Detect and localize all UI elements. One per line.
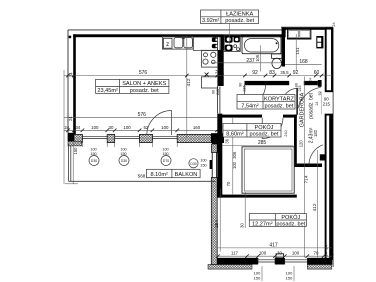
svg-text:12,27m²: 12,27m² bbox=[252, 221, 273, 227]
wall: right wall lower outer emphasis bbox=[329, 115, 332, 265]
svg-text:150: 150 bbox=[200, 164, 206, 168]
wall: door post at entry bbox=[318, 80, 322, 87]
label box POKOJ 12,27 bbox=[249, 214, 306, 227]
svg-text:117: 117 bbox=[231, 251, 239, 256]
svg-text:3.92m²: 3.92m² bbox=[202, 18, 220, 24]
svg-text:24: 24 bbox=[324, 252, 328, 256]
wire: outer thin face line right bbox=[332, 27, 334, 267]
fridge bbox=[201, 77, 217, 88]
svg-text:BALKON: BALKON bbox=[175, 172, 198, 178]
dim line 576/interior horizontal y75.5 bbox=[64, 75, 332, 77]
extension line across entry opening bbox=[321, 92, 323, 115]
svg-text:SALON + ANEKS: SALON + ANEKS bbox=[122, 81, 166, 87]
dim line 417 bottom bbox=[218, 247, 332, 249]
svg-text:412: 412 bbox=[312, 203, 318, 211]
svg-text:215: 215 bbox=[323, 102, 331, 107]
wall: hatched west wall of lower room bbox=[212, 144, 218, 153]
svg-text:posadz. bet: posadz. bet bbox=[225, 18, 254, 24]
wire: outer thin face line left bbox=[67, 30, 69, 141]
dim line detail bottom bbox=[218, 255, 332, 257]
bathroom washbasin/washer unit bbox=[224, 35, 240, 52]
svg-text:100: 100 bbox=[91, 125, 99, 130]
wall: right wall lower segment (hollow double line) bbox=[326, 115, 332, 259]
svg-text:160: 160 bbox=[193, 125, 201, 130]
window: salon south window 2 bbox=[115, 135, 140, 141]
svg-text:8,60m²: 8,60m² bbox=[226, 132, 244, 138]
svg-text:150: 150 bbox=[73, 147, 78, 155]
wire: outer thin face line top right bbox=[281, 26, 333, 28]
dim line 285 middle room bbox=[222, 145, 293, 147]
svg-text:150: 150 bbox=[254, 276, 261, 281]
kitchen counter with sink bbox=[162, 36, 193, 49]
svg-text:posadz. bet: posadz. bet bbox=[250, 132, 279, 138]
svg-text:100: 100 bbox=[162, 148, 168, 152]
svg-text:70: 70 bbox=[314, 251, 319, 256]
short leader lines from salon windows bbox=[82, 143, 177, 147]
svg-text:70: 70 bbox=[226, 181, 231, 186]
garderoba vertical room texts bbox=[300, 92, 315, 143]
svg-text:100: 100 bbox=[292, 251, 300, 256]
svg-text:D30: D30 bbox=[91, 159, 97, 163]
svg-text:posadz. bet: posadz. bet bbox=[276, 221, 305, 227]
svg-text:150: 150 bbox=[162, 152, 168, 156]
svg-text:90: 90 bbox=[212, 90, 216, 94]
svg-text:237: 237 bbox=[246, 58, 255, 64]
dim line 576 salon south bbox=[64, 117, 217, 119]
svg-text:35,5: 35,5 bbox=[280, 70, 289, 75]
balcony slab left edge bbox=[69, 144, 216, 182]
svg-text:24: 24 bbox=[68, 116, 73, 121]
svg-text:60: 60 bbox=[314, 70, 320, 76]
corner dot top-left bbox=[69, 36, 72, 39]
svg-text:210: 210 bbox=[284, 130, 288, 136]
svg-text:100: 100 bbox=[123, 125, 131, 130]
wall: jog between top bands bbox=[282, 28, 286, 38]
svg-text:106: 106 bbox=[255, 54, 260, 62]
wall: korytarz south segment west bbox=[218, 115, 263, 118]
bottom wall segment dims bbox=[231, 251, 319, 256]
svg-text:GARDEROBA: GARDEROBA bbox=[300, 92, 306, 127]
svg-text:100: 100 bbox=[90, 148, 96, 152]
toilet bbox=[272, 54, 282, 69]
svg-text:100: 100 bbox=[232, 161, 237, 169]
svg-text:23,45m²: 23,45m² bbox=[97, 88, 118, 94]
svg-text:8.10m²: 8.10m² bbox=[150, 172, 168, 178]
wall: between pokoj rooms bbox=[218, 195, 297, 198]
dim line vertical balcony 150 bbox=[72, 142, 74, 184]
dim line detail salon south bbox=[64, 129, 217, 131]
wall: hatched pier 1 salon south bbox=[74, 134, 82, 142]
svg-text:83: 83 bbox=[269, 70, 275, 76]
svg-text:24: 24 bbox=[68, 72, 73, 77]
wall: middle wall upper with channel bbox=[221, 36, 224, 50]
wall: salon top band bbox=[73, 34, 282, 37]
label box KORYTARZ bbox=[237, 95, 295, 110]
small black block on balcony strip bbox=[210, 160, 213, 169]
svg-text:306: 306 bbox=[232, 151, 237, 159]
wall: bottom wall right black segment bbox=[307, 258, 330, 265]
window: bottom wall window 1 bbox=[258, 258, 275, 264]
svg-text:412: 412 bbox=[186, 78, 192, 86]
svg-text:151: 151 bbox=[295, 47, 300, 55]
label box SALON bbox=[96, 79, 169, 93]
leader window label bottom 1 bbox=[261, 266, 263, 281]
stove bbox=[201, 50, 217, 67]
leader lazienka box bbox=[229, 24, 231, 45]
window: salon south window 1 bbox=[82, 135, 107, 141]
svg-text:576: 576 bbox=[138, 112, 147, 118]
svg-text:150: 150 bbox=[90, 152, 96, 156]
svg-text:417: 417 bbox=[269, 243, 278, 249]
kitchen tall unit outline bbox=[193, 37, 217, 51]
svg-text:D30: D30 bbox=[190, 162, 196, 166]
dim line vertical 412 right bbox=[316, 150, 318, 258]
svg-text:z: z bbox=[166, 42, 169, 48]
balcony window marker circles D30 bbox=[89, 156, 198, 168]
salon south segment dims bbox=[64, 125, 200, 130]
svg-text:30: 30 bbox=[239, 223, 244, 228]
door: garderoba door arc bbox=[282, 89, 297, 104]
svg-text:ŁAZIENKA: ŁAZIENKA bbox=[226, 12, 253, 18]
window sill stacked labels balcony bbox=[90, 148, 206, 168]
wall: salon bottom-right corner block bbox=[211, 133, 224, 143]
svg-text:24: 24 bbox=[315, 102, 319, 106]
door: balcony door leaf and swing arc bbox=[147, 111, 172, 136]
door jamb lines in salon-korytarz opening bbox=[218, 87, 220, 114]
dim line vertical 106 bbox=[259, 45, 261, 71]
wall: door post lower room bbox=[320, 154, 326, 160]
svg-text:150: 150 bbox=[286, 276, 293, 281]
svg-text:24: 24 bbox=[64, 125, 69, 130]
door: lower room door arc and leaf bbox=[309, 145, 323, 166]
door: bathroom door leaf and arc bbox=[245, 85, 266, 106]
dim line balcony bottom tick bbox=[65, 183, 78, 185]
wall: bathroom east wall bbox=[282, 34, 285, 66]
svg-text:KORYTARZ: KORYTARZ bbox=[264, 96, 295, 102]
svg-text:168: 168 bbox=[299, 59, 308, 65]
asterisk tick on 576 line bbox=[205, 73, 209, 77]
svg-text:215: 215 bbox=[216, 89, 220, 95]
svg-text:182: 182 bbox=[313, 129, 318, 137]
svg-text:120: 120 bbox=[298, 140, 303, 148]
wire: outer thin face line top bbox=[68, 29, 286, 31]
wall: bridge at top of lower-room west wall bbox=[212, 143, 222, 152]
svg-text:D70: D70 bbox=[163, 159, 169, 163]
dim line vertical 412 salon bbox=[186, 37, 188, 139]
window: balcony door glazing bbox=[152, 135, 177, 141]
svg-text:24: 24 bbox=[324, 245, 328, 249]
svg-text:92: 92 bbox=[293, 70, 299, 76]
rotated dimension texts bbox=[68, 47, 328, 257]
wall: korytarz south segment east bbox=[283, 115, 297, 118]
ticks bottom detail line bbox=[216, 254, 220, 258]
svg-text:24: 24 bbox=[308, 78, 312, 82]
dim line vertical 30 lower room bbox=[244, 192, 246, 228]
svg-text:285: 285 bbox=[258, 140, 267, 146]
ticks salon south detail line bbox=[66, 129, 70, 133]
svg-text:30: 30 bbox=[277, 251, 282, 256]
bathtub bbox=[242, 37, 281, 54]
wall: bathroom south segment a bbox=[245, 81, 290, 85]
svg-text:POKÓJ: POKÓJ bbox=[281, 214, 300, 221]
wall: salon bottom-left corner block bbox=[68, 133, 74, 142]
svg-text:150: 150 bbox=[120, 152, 126, 156]
svg-text:24: 24 bbox=[214, 69, 219, 74]
wall: right wall upper segment (hollow double line) bbox=[326, 29, 332, 92]
wall: hatched pier 3 salon south bbox=[140, 134, 153, 142]
door: entry door arc bbox=[298, 87, 321, 108]
window spec stacked labels bottom bbox=[254, 271, 293, 281]
bed rectangle in middle room bbox=[242, 147, 294, 193]
dim line vertical 151 niche bbox=[295, 34, 297, 71]
dim line vertical 714 bbox=[304, 77, 306, 258]
wall: hatch band bottom right bbox=[307, 265, 332, 270]
svg-text:34: 34 bbox=[75, 125, 80, 130]
pilaster above bottom middle pier bbox=[276, 254, 284, 258]
wire: balcony-side double line wall section bbox=[211, 153, 213, 178]
wall: hatched pier 2 salon south bbox=[107, 134, 115, 142]
svg-text:24: 24 bbox=[332, 22, 336, 26]
entry door spec 90/215 bbox=[323, 97, 331, 107]
wall: garderoba west wall upper thin bbox=[296, 88, 297, 115]
svg-text:100: 100 bbox=[161, 125, 169, 130]
wall: garderoba south wall bbox=[294, 164, 322, 168]
svg-text:posadz. bet: posadz. bet bbox=[308, 92, 314, 118]
svg-text:52: 52 bbox=[143, 125, 148, 130]
wall: top-right upper band bbox=[282, 28, 333, 30]
dim line 168 niche bbox=[285, 63, 322, 65]
svg-text:576: 576 bbox=[139, 70, 148, 76]
svg-text:100: 100 bbox=[259, 251, 267, 256]
svg-text:92: 92 bbox=[252, 70, 258, 76]
wall: bathroom south segment b bbox=[304, 81, 318, 85]
label box BALKON bbox=[147, 169, 201, 177]
svg-text:215: 215 bbox=[298, 86, 302, 92]
svg-text:254: 254 bbox=[214, 220, 220, 228]
svg-text:100: 100 bbox=[120, 148, 126, 152]
kitchen black fittings bbox=[212, 37, 218, 48]
svg-text:100: 100 bbox=[200, 159, 206, 163]
svg-text:posadz. bet: posadz. bet bbox=[130, 88, 159, 94]
svg-text:POKÓJ: POKÓJ bbox=[255, 124, 274, 131]
door: pokoj 8.60 door leaf and arc bbox=[262, 118, 283, 139]
svg-text:215: 215 bbox=[242, 86, 246, 92]
dim tick marks (slashes) bbox=[66, 73, 333, 258]
extension line left of 576 bbox=[63, 70, 65, 184]
wall: middle wall lower (salon east) bbox=[217, 114, 222, 198]
dim line vertical 306 middle room bbox=[232, 118, 234, 194]
label box POKOJ 8,60 bbox=[223, 124, 281, 137]
wall: hatch below left corner bbox=[68, 141, 82, 146]
label box LAZIENKA bbox=[201, 10, 259, 24]
balcony slab bottom edge bbox=[69, 180, 216, 182]
svg-text:posadz. bet: posadz. bet bbox=[265, 104, 294, 110]
wall: bottom wall left black segment bbox=[218, 258, 259, 265]
dim line vertical 254 lower room bbox=[219, 189, 221, 252]
wall: left wall band bbox=[73, 34, 76, 139]
shaft boxes in top wall bbox=[288, 30, 310, 37]
shaft black box right of bathroom bbox=[316, 36, 323, 48]
wall: bottom wall middle pier bbox=[275, 258, 285, 265]
wall: garderoba west wall bbox=[294, 115, 297, 167]
wall: hatched long segment salon south bbox=[177, 134, 211, 142]
wall: hatch band bottom left bbox=[208, 265, 252, 270]
leader window label bottom 2 bbox=[293, 266, 295, 281]
svg-text:D30: D30 bbox=[121, 159, 127, 163]
dimension lines bbox=[64, 24, 332, 281]
wall: shaft recess U outline bbox=[288, 29, 311, 39]
svg-text:714: 714 bbox=[304, 175, 310, 183]
dimension number texts horizontal bbox=[138, 58, 320, 249]
svg-text:36: 36 bbox=[225, 138, 230, 143]
svg-text:30: 30 bbox=[109, 125, 114, 130]
svg-text:568: 568 bbox=[138, 174, 146, 179]
dim line 237 bathroom bbox=[211, 62, 281, 64]
window: bottom wall window 2 bbox=[285, 258, 308, 264]
svg-text:7,54m²: 7,54m² bbox=[241, 104, 259, 110]
